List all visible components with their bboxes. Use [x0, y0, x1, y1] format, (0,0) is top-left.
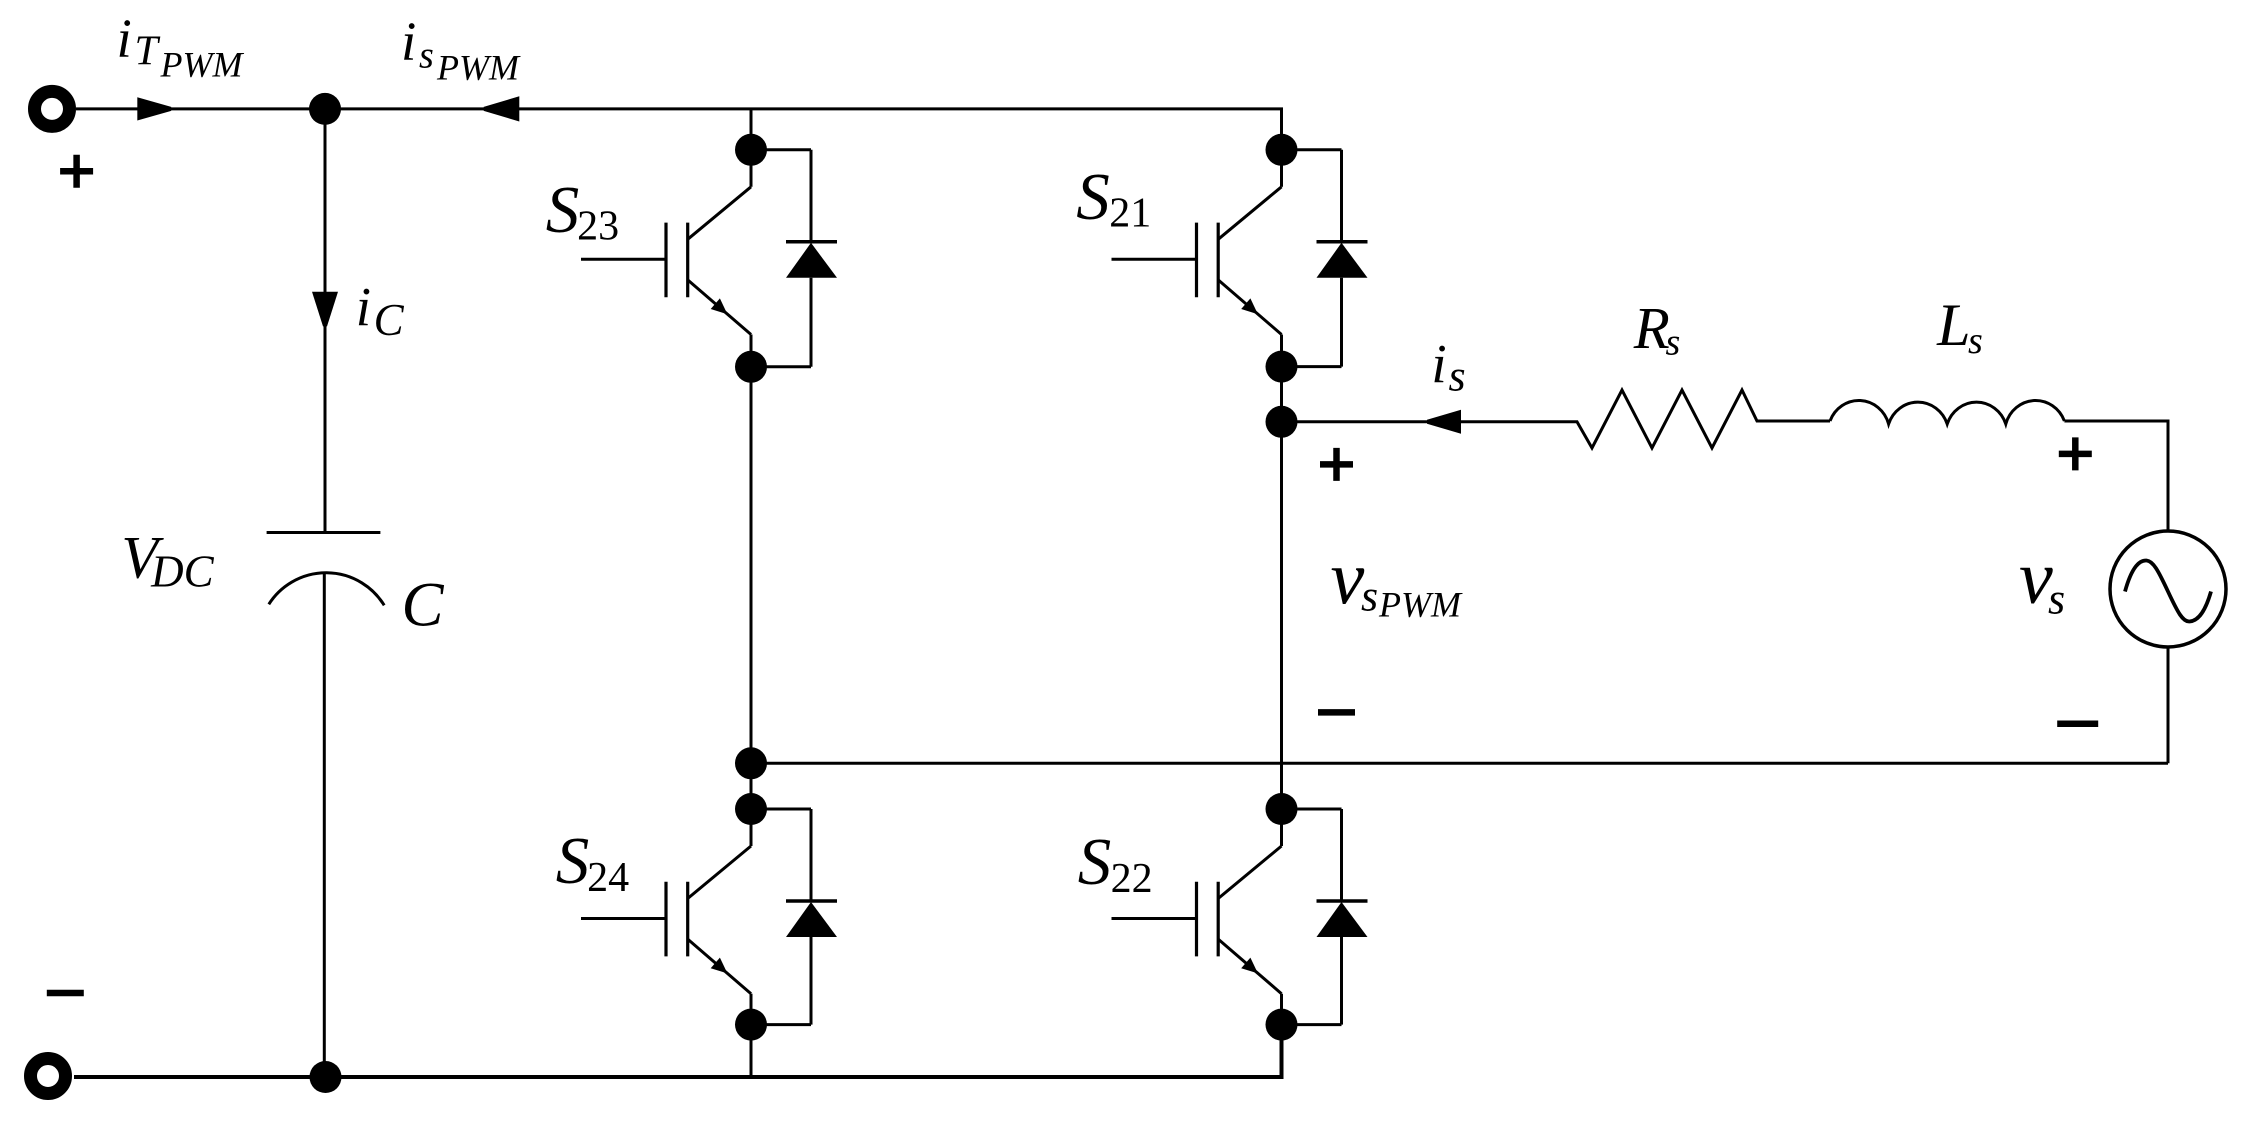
svg-text:i: i [401, 11, 416, 72]
svg-text:PWM: PWM [160, 45, 245, 85]
svg-text:L: L [1936, 292, 1970, 358]
svg-text:21: 21 [1109, 191, 1151, 237]
svg-text:S: S [1076, 160, 1110, 234]
svg-text:DC: DC [150, 547, 214, 597]
svg-text:24: 24 [587, 855, 629, 901]
svg-text:S: S [1078, 825, 1112, 899]
svg-text:C: C [402, 570, 445, 640]
svg-text:s: s [1968, 320, 1983, 362]
svg-text:PWM: PWM [436, 48, 521, 88]
svg-text:i: i [356, 276, 371, 337]
svg-text:22: 22 [1111, 856, 1153, 902]
svg-text:T: T [135, 29, 161, 75]
svg-text:s: s [1361, 572, 1378, 621]
svg-text:PWM: PWM [1378, 585, 1463, 625]
svg-text:s: s [1449, 352, 1466, 401]
svg-text:23: 23 [577, 204, 619, 250]
svg-text:i: i [1431, 333, 1446, 394]
svg-text:R: R [1633, 295, 1670, 361]
svg-text:S: S [556, 824, 590, 898]
svg-text:s: s [419, 35, 434, 77]
svg-text:s: s [2048, 575, 2065, 624]
svg-text:s: s [1666, 322, 1681, 364]
svg-text:C: C [374, 295, 405, 345]
svg-text:i: i [117, 7, 132, 68]
svg-text:v: v [1331, 536, 1365, 620]
svg-text:S: S [546, 173, 580, 247]
